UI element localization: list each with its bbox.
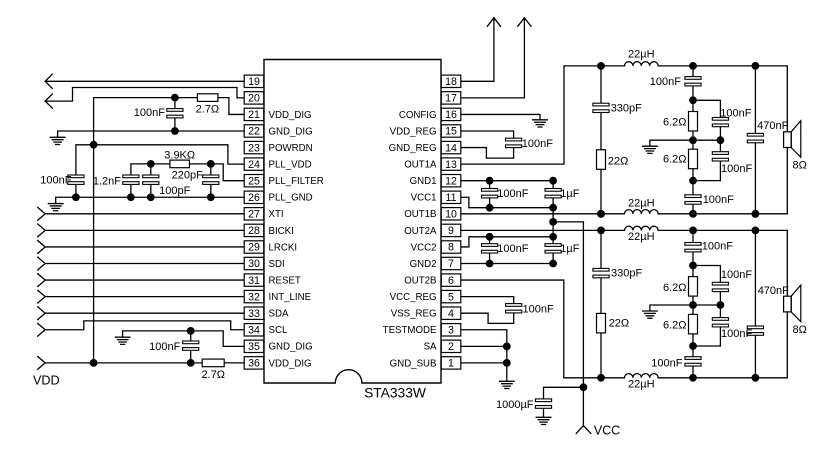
svg-text:8Ω: 8Ω <box>793 160 807 172</box>
svg-text:11: 11 <box>446 192 457 204</box>
svg-text:8: 8 <box>448 242 454 254</box>
svg-text:100nF: 100nF <box>522 138 553 150</box>
svg-text:100nF: 100nF <box>720 108 751 120</box>
svg-text:10: 10 <box>445 209 457 221</box>
svg-text:15: 15 <box>445 126 457 138</box>
svg-text:PLL_GND: PLL_GND <box>269 193 313 204</box>
svg-text:7: 7 <box>448 258 454 270</box>
svg-text:22Ω: 22Ω <box>609 317 629 329</box>
svg-text:2: 2 <box>448 341 454 353</box>
svg-text:VDD_DIG: VDD_DIG <box>269 358 312 369</box>
svg-text:OUT1A: OUT1A <box>404 160 437 171</box>
svg-text:31: 31 <box>248 275 260 287</box>
svg-text:27: 27 <box>248 209 260 221</box>
svg-text:32: 32 <box>248 291 260 303</box>
svg-text:1.2nF: 1.2nF <box>93 176 121 188</box>
svg-text:SCL: SCL <box>269 325 288 336</box>
svg-text:6: 6 <box>448 275 454 287</box>
svg-text:220pF: 220pF <box>172 169 203 181</box>
svg-text:36: 36 <box>248 358 260 370</box>
svg-text:28: 28 <box>248 225 260 237</box>
svg-text:6.2Ω: 6.2Ω <box>663 319 687 331</box>
svg-text:2.7Ω: 2.7Ω <box>201 369 225 381</box>
svg-text:24: 24 <box>248 159 260 171</box>
svg-text:29: 29 <box>248 242 260 254</box>
svg-text:22µH: 22µH <box>628 48 655 60</box>
svg-text:STA333W: STA333W <box>364 385 426 400</box>
svg-text:18: 18 <box>445 76 457 88</box>
svg-text:OUT1B: OUT1B <box>404 209 436 220</box>
svg-text:1µF: 1µF <box>560 188 579 200</box>
svg-text:OUT2B: OUT2B <box>404 275 436 286</box>
svg-text:SDA: SDA <box>269 309 289 320</box>
svg-text:SA: SA <box>424 342 437 353</box>
svg-text:100nF: 100nF <box>497 188 528 200</box>
svg-text:100nF: 100nF <box>702 241 733 253</box>
svg-text:12: 12 <box>445 175 457 187</box>
svg-text:20: 20 <box>248 93 260 105</box>
svg-text:GND_DIG: GND_DIG <box>269 126 313 137</box>
svg-text:CONFIG: CONFIG <box>399 110 437 121</box>
svg-text:GND_REG: GND_REG <box>389 143 437 154</box>
svg-text:VSS_REG: VSS_REG <box>391 309 437 320</box>
svg-text:33: 33 <box>248 308 260 320</box>
svg-text:330pF: 330pF <box>611 268 642 280</box>
svg-text:100nF: 100nF <box>721 328 752 340</box>
svg-text:16: 16 <box>445 109 457 121</box>
svg-text:22Ω: 22Ω <box>608 156 628 168</box>
svg-text:13: 13 <box>445 159 457 171</box>
svg-text:GND1: GND1 <box>410 176 437 187</box>
svg-text:GND_DIG: GND_DIG <box>269 342 313 353</box>
svg-text:330pF: 330pF <box>611 103 642 115</box>
svg-text:VCC2: VCC2 <box>411 242 437 253</box>
svg-text:34: 34 <box>248 324 260 336</box>
svg-text:PLL_VDD: PLL_VDD <box>269 160 312 171</box>
svg-text:RESET: RESET <box>269 275 301 286</box>
svg-text:100nF: 100nF <box>134 107 165 119</box>
svg-text:17: 17 <box>445 93 457 105</box>
svg-text:14: 14 <box>445 142 457 154</box>
svg-text:4: 4 <box>448 308 454 320</box>
svg-text:9: 9 <box>448 225 454 237</box>
svg-text:100nF: 100nF <box>721 269 752 281</box>
svg-text:1µF: 1µF <box>560 243 579 255</box>
svg-text:VCC_REG: VCC_REG <box>390 292 437 303</box>
svg-text:XTI: XTI <box>269 209 284 220</box>
svg-text:35: 35 <box>248 341 260 353</box>
svg-text:OUT2A: OUT2A <box>404 226 437 237</box>
svg-text:22µH: 22µH <box>628 378 655 390</box>
svg-text:1: 1 <box>448 358 454 370</box>
svg-text:VDD_REG: VDD_REG <box>390 126 437 137</box>
svg-text:BICKI: BICKI <box>269 226 294 237</box>
svg-text:21: 21 <box>248 109 260 121</box>
svg-text:6.2Ω: 6.2Ω <box>663 117 687 129</box>
svg-text:19: 19 <box>248 76 260 88</box>
svg-text:100nF: 100nF <box>40 175 71 187</box>
svg-text:VCC1: VCC1 <box>411 193 437 204</box>
svg-text:100nF: 100nF <box>703 194 734 206</box>
svg-text:LRCKI: LRCKI <box>269 242 298 253</box>
svg-text:100nF: 100nF <box>721 163 752 175</box>
svg-text:22µH: 22µH <box>628 197 655 209</box>
svg-text:23: 23 <box>248 142 260 154</box>
svg-text:3: 3 <box>448 324 454 336</box>
svg-text:GND_SUB: GND_SUB <box>390 358 437 369</box>
svg-text:VDD_DIG: VDD_DIG <box>269 110 312 121</box>
svg-text:100pF: 100pF <box>159 185 190 197</box>
svg-text:25: 25 <box>248 175 260 187</box>
svg-text:5: 5 <box>448 291 454 303</box>
svg-text:22: 22 <box>248 126 260 138</box>
svg-text:470nF: 470nF <box>757 120 788 132</box>
svg-text:GND2: GND2 <box>410 259 437 270</box>
svg-text:SDI: SDI <box>269 259 285 270</box>
svg-text:TESTMODE: TESTMODE <box>383 325 437 336</box>
svg-text:6.2Ω: 6.2Ω <box>663 153 687 165</box>
svg-text:1000µF: 1000µF <box>496 399 534 411</box>
svg-text:100nF: 100nF <box>497 243 528 255</box>
svg-text:8Ω: 8Ω <box>793 324 807 336</box>
svg-text:26: 26 <box>248 192 260 204</box>
svg-text:100nF: 100nF <box>523 303 554 315</box>
svg-text:470nF: 470nF <box>758 285 789 297</box>
svg-text:22µH: 22µH <box>628 231 655 243</box>
svg-text:2.7Ω: 2.7Ω <box>196 104 220 116</box>
svg-text:100nF: 100nF <box>651 357 682 369</box>
svg-text:POWRDN: POWRDN <box>269 143 313 154</box>
svg-text:100nF: 100nF <box>650 76 681 88</box>
svg-text:6.2Ω: 6.2Ω <box>663 282 687 294</box>
svg-text:VCC: VCC <box>594 423 621 437</box>
svg-text:3.9KΩ: 3.9KΩ <box>164 150 195 162</box>
svg-text:PLL_FILTER: PLL_FILTER <box>269 176 324 187</box>
svg-text:30: 30 <box>248 258 260 270</box>
svg-text:100nF: 100nF <box>149 341 180 353</box>
svg-text:INT_LINE: INT_LINE <box>269 292 312 303</box>
svg-text:VDD: VDD <box>33 374 60 388</box>
